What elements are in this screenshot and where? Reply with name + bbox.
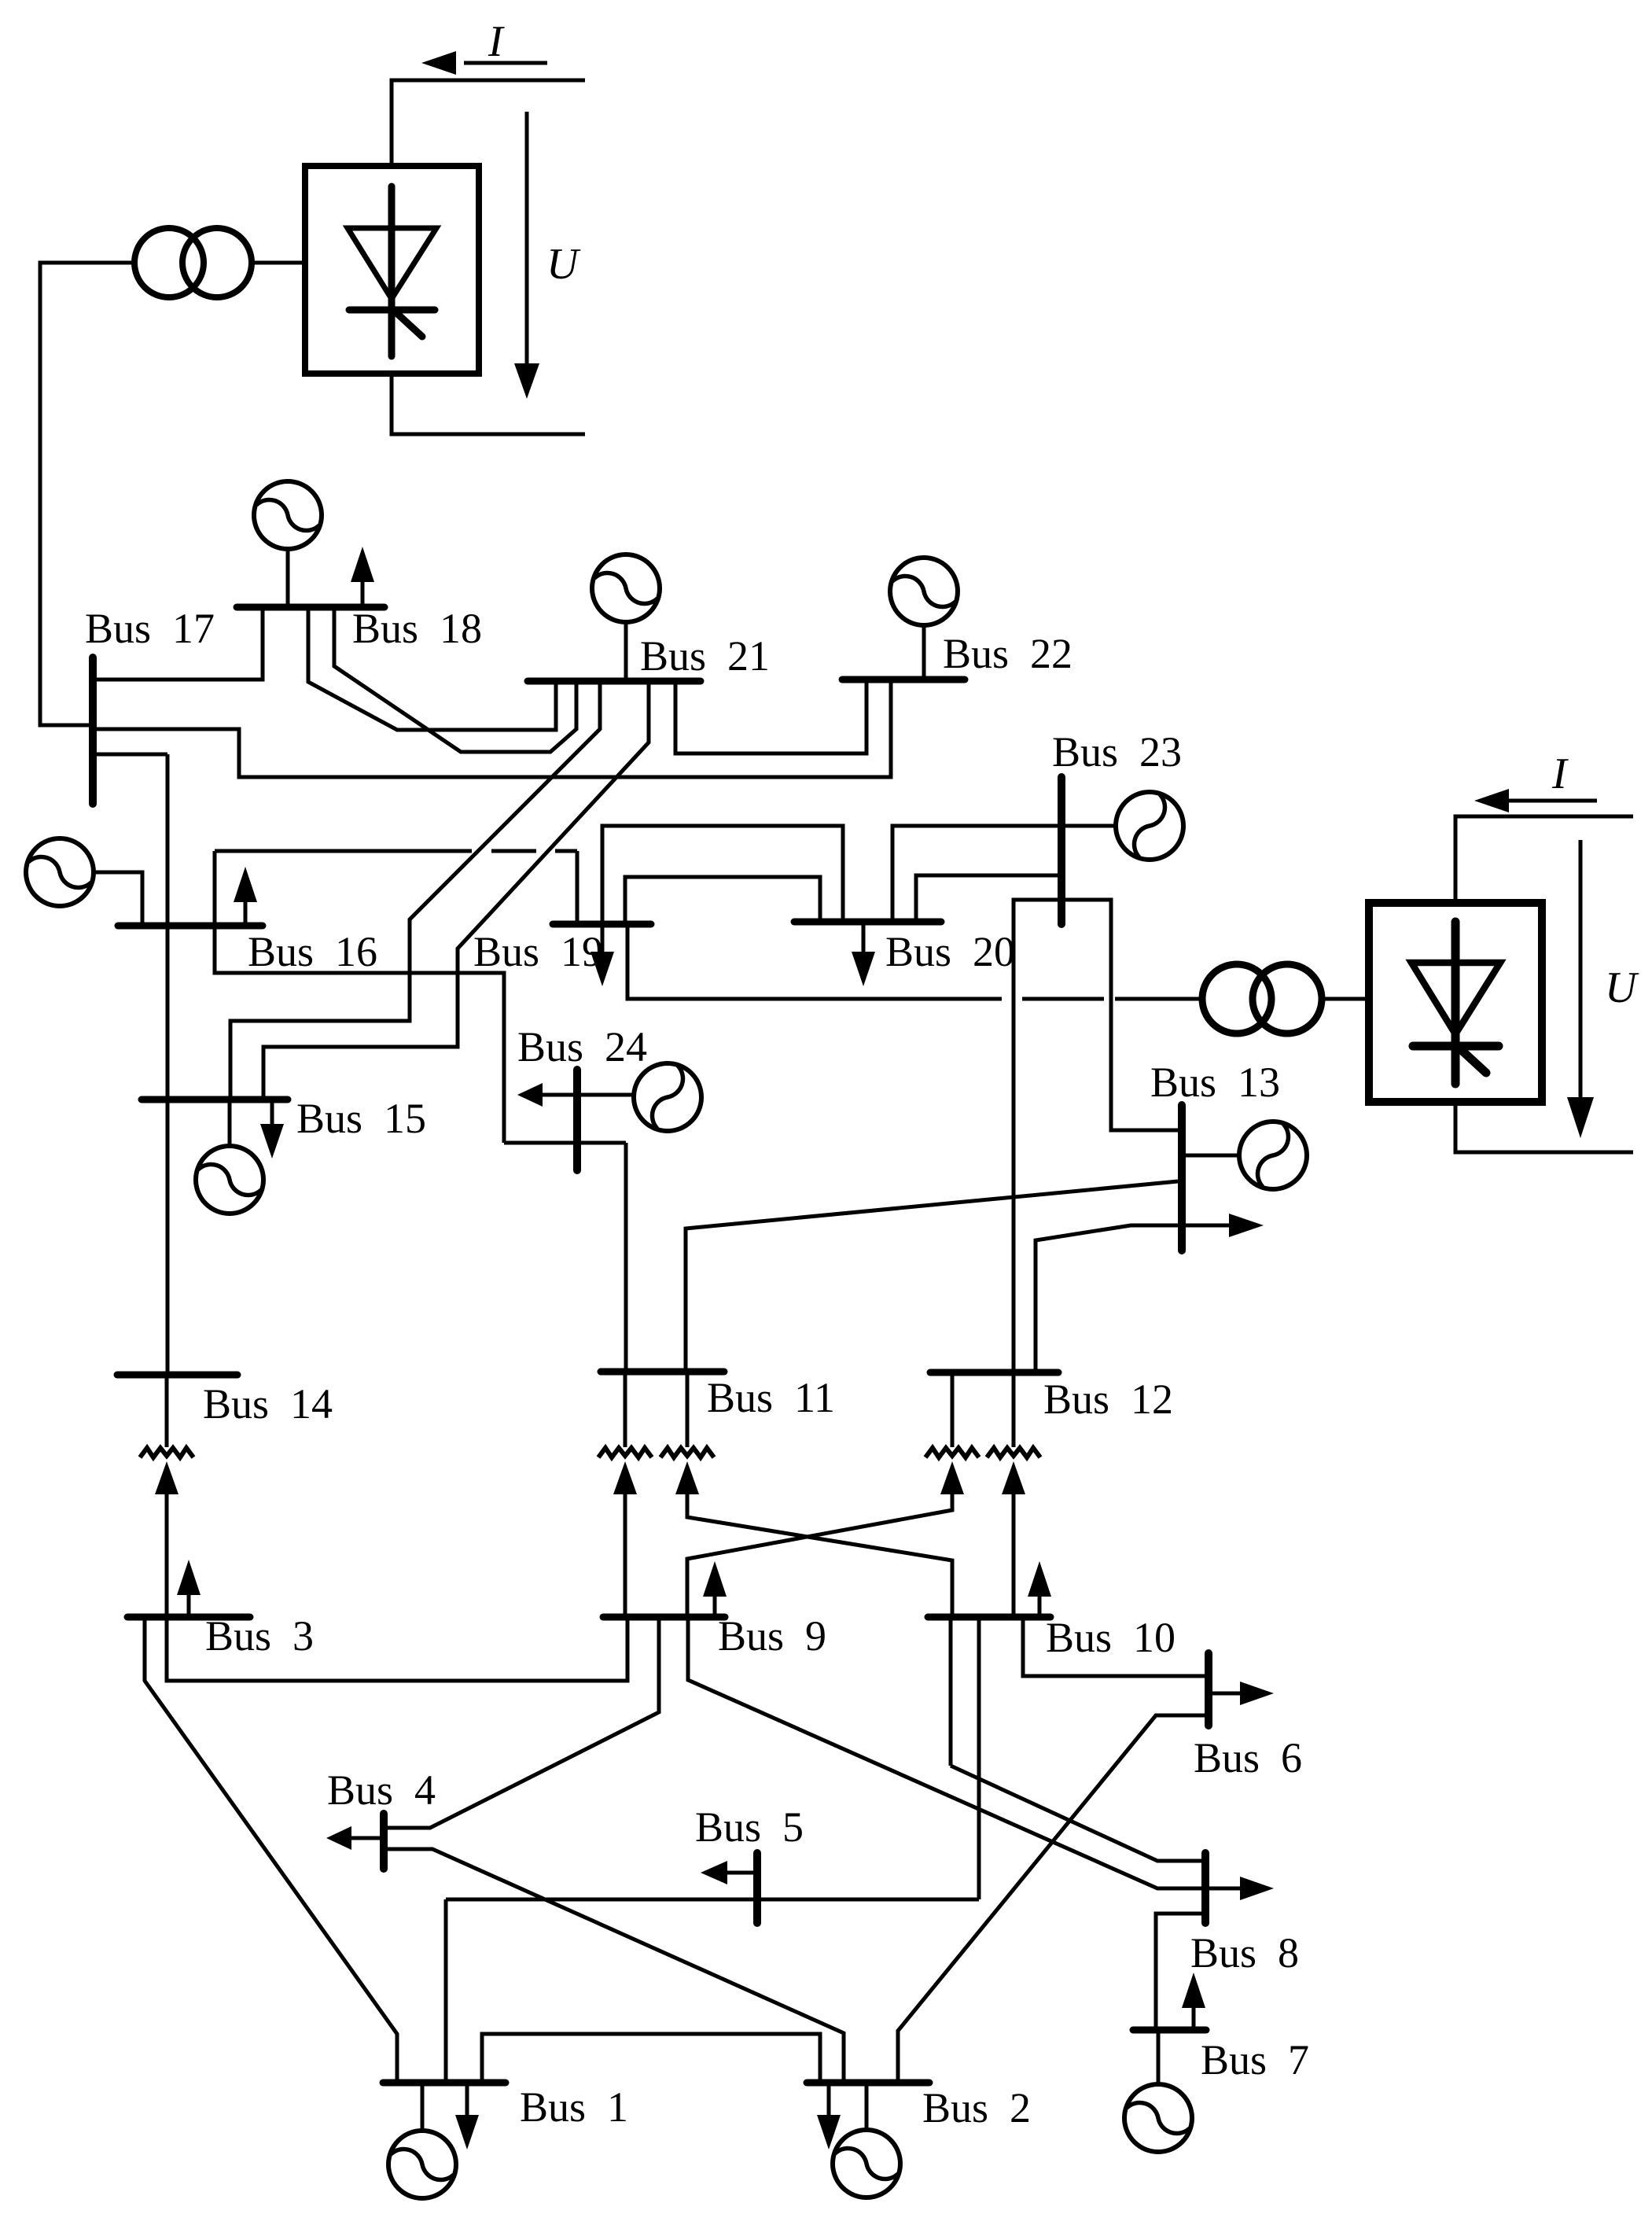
wire generator lead Bus23 [1061,824,1116,828]
wire Bus19-Bus20 circuit 1 [602,826,843,921]
zigzag mark Bus12 left line [925,1448,979,1457]
wire Bus18-Bus21 circuit A [308,610,556,730]
svg-text:Bus 10: Bus 10 [1046,1614,1176,1661]
zigzag mark Bus14 line [140,1448,193,1457]
wire Bus1-Bus5-Bus10 horizontal [446,1899,979,2083]
bus bar Bus 14 [117,1372,237,1379]
bus bar Bus 8 [1201,1853,1209,1923]
bus bar Bus 7 [1133,2027,1206,2034]
svg-text:Bus 12: Bus 12 [1043,1376,1173,1423]
generator G-Bus18 [254,481,322,607]
arrowhead up line into Bus14 [155,1461,178,1494]
generator G-Bus21 [592,554,660,681]
wire Bus10-Bus5 vertical [977,1617,981,1899]
arrowhead up line into Bus12 right [1002,1461,1025,1494]
bus bar Bus 21 [528,678,701,685]
bus bar Bus 10 [928,1614,1050,1621]
wire Bus16-Bus19 (gaps at diagonal crossings) [215,851,577,923]
svg-text:Bus 18: Bus 18 [352,605,482,652]
svg-text:Bus 3: Bus 3 [205,1612,314,1660]
svg-text:Bus 14: Bus 14 [203,1380,333,1427]
wire converter1 DC bottom [392,374,585,434]
wire Bus4-Bus9 [387,1617,659,1828]
svg-text:Bus 11: Bus 11 [707,1374,835,1421]
thyristor V2 triangle [1411,963,1500,1034]
svg-text:Bus 7: Bus 7 [1201,2036,1309,2083]
bus bar Bus 16 [118,923,263,930]
load arrow Bus16 (up) [234,867,257,926]
wire Bus14-Bus3 lower stem [165,1494,169,1617]
wire Bus24 bar crossing horizontal [504,1141,626,1145]
load arrow Bus3 (up) [177,1560,201,1617]
wire T1 to converter box [252,261,305,265]
svg-text:Bus 21: Bus 21 [640,632,770,680]
zigzag mark Bus11 left line [598,1448,652,1457]
arrow U2 line [1579,840,1583,1101]
bus bar Bus 24 [573,1070,581,1170]
wire converter2 DC top [1455,816,1633,903]
generator G-Bus15 [196,1100,263,1214]
load arrow Bus5 (left) [701,1861,754,1884]
generator G-Bus1 [388,2083,456,2198]
load arrow Bus7 (up) [1182,1973,1205,2030]
wire Bus7-Bus8 [1156,1914,1203,2030]
svg-text:Bus 23: Bus 23 [1052,728,1182,775]
arrowhead up line into Bus11 left [613,1461,637,1494]
wire converter1 AC lead + drop to Bus 17 [40,263,135,725]
transformer T2 circle a [1202,964,1271,1033]
bus bar Bus 19 [553,921,651,928]
svg-text:Bus 17: Bus 17 [85,605,215,652]
wire Bus12-Bus9 upper stem [951,1372,955,1447]
wire Bus21-Bus22 [675,683,866,753]
wire Bus11-Bus9 lower stem [624,1494,627,1617]
zigzag mark Bus11 right line [660,1448,714,1457]
load arrow Bus2 (down) [817,2083,841,2150]
wire Bus12-Bus10 lower stem [1012,1494,1016,1617]
wire Bus11-Bus10 diagonal to Bus10 [687,1494,952,1617]
svg-text:Bus 24: Bus 24 [517,1023,647,1070]
svg-text:U: U [546,240,581,289]
wire Bus14-Bus3 upper stem [165,1375,169,1447]
bus bar Bus 23 [1058,777,1065,924]
svg-text:Bus 2: Bus 2 [922,2084,1031,2131]
arrowhead up line into Bus12 left [940,1461,964,1494]
wire Bus10 to jog point [949,1617,953,1766]
generator G-Bus22 [890,558,958,680]
thyristor V1 gate [393,310,422,337]
wire generator lead Bus16 [94,872,142,923]
load arrow Bus19 (down) [591,924,614,986]
svg-text:Bus 8: Bus 8 [1190,1929,1299,1976]
wire Bus17-Bus22 [90,683,891,777]
arrow I1 line [464,61,547,65]
svg-text:Bus 22: Bus 22 [943,630,1073,677]
wire converter2 DC bottom [1455,1102,1633,1152]
wire Bus2-Bus6 [898,1715,1205,2083]
wire Bus19-Bus20 circuit 2 [625,877,820,921]
bus bar Bus 18 [237,604,384,611]
generator G-Bus16 [26,838,94,906]
wire Bus12-Bus10 upper stem [1012,1372,1016,1447]
wire Bus20-Bus23 circuit 1 [892,826,1061,919]
load arrow Bus15 (down) [260,1100,284,1159]
wire Bus24-Bus11 [624,1143,628,1372]
svg-text:Bus 4: Bus 4 [327,1766,436,1814]
wire Bus12-Bus9 diagonal to Bus9 [687,1494,952,1617]
arrowhead up line into Bus11 right [675,1461,699,1494]
svg-text:Bus 15: Bus 15 [296,1095,426,1142]
load arrow Bus20 (down) [852,922,875,986]
wire Bus17-Bus18 [90,610,263,680]
load arrow Bus6 (right) [1212,1682,1274,1705]
generator G-Bus23 [1061,792,1183,860]
wire Bus11-Bus9 upper stem [624,1372,627,1447]
bus bar Bus 3 [127,1614,250,1621]
thyristor V1 cathode bar [349,307,435,314]
wire Bus15-Bus21 circuit 1 [230,684,600,1096]
load arrow Bus24 (left) [517,1083,575,1107]
bus bar Bus 13 [1178,1105,1186,1251]
wire Bus3-Bus1 [145,1617,397,2083]
svg-text:Bus 16: Bus 16 [248,928,377,975]
wire Bus8-Bus10 diagonal [951,1766,1205,1861]
zigzag mark Bus12 right line [987,1448,1040,1457]
arrow U1 head [514,363,539,399]
wire Bus19 to T2 (with crossing gaps) [627,923,1202,999]
wire Bus6-Bus10 [1023,1617,1209,1676]
wire Bus15-Bus21 circuit 2 [263,684,649,1096]
wire Bus1-Bus2 [482,2034,820,2083]
wire Bus8-Bus9 [688,1617,1205,1888]
svg-text:U: U [1605,963,1639,1012]
wire Bus11-Bus10 upper stem [686,1372,690,1447]
svg-text:Bus 5: Bus 5 [695,1803,804,1851]
svg-text:Bus 9: Bus 9 [718,1612,826,1660]
arrow I1 head [421,51,456,75]
transformer T2 circle b [1253,964,1322,1033]
converter U2 box [1369,903,1542,1102]
load arrow Bus13 (right) [1229,1214,1264,1237]
bus bar Bus 17 [89,658,97,804]
arrow I2 head [1474,789,1509,812]
load arrow Bus10 (up) [1028,1561,1051,1617]
load arrow Bus9 (up) [703,1561,727,1617]
generator G-Bus13 [1182,1122,1307,1189]
svg-text:I: I [1551,750,1569,798]
bus bar Bus 9 [603,1614,725,1621]
bus bar Bus 11 [601,1369,724,1376]
load arrow Bus8 (right) [1209,1877,1274,1900]
arrow I2 line [1505,799,1597,803]
wire Bus3-Bus9 [167,1617,627,1681]
svg-text:Bus 6: Bus 6 [1194,1734,1302,1781]
bus bar Bus 4 [380,1814,388,1869]
wire Bus12-Bus13 with load arrow tail [1036,1225,1229,1372]
load arrow Bus1 (down) [455,2083,479,2150]
thyristor V1 triangle [348,228,436,299]
bus bar Bus 2 [807,2080,929,2087]
load arrow Bus4 (left) [326,1826,381,1850]
bus bar Bus 5 [753,1853,761,1923]
generator G-Bus2 [833,2083,900,2197]
svg-text:Bus 20: Bus 20 [885,928,1015,975]
wire converter1 DC top [392,80,585,166]
bus bar Bus 12 [930,1369,1058,1376]
bus bar Bus 6 [1205,1653,1212,1726]
thyristor V2 vertical lead [1451,922,1460,1084]
converter U1 box [305,166,479,374]
bus bar Bus 20 [794,919,941,926]
arrow U1 line [525,112,529,366]
generator G-Bus24 [577,1063,701,1131]
svg-text:Bus 1: Bus 1 [520,2083,628,2131]
bus bar Bus 15 [142,1096,288,1103]
transformer T1 circle a [134,228,204,297]
thyristor V2 cathode bar [1413,1042,1499,1051]
thyristor V2 gate [1457,1046,1486,1073]
bus bar Bus 1 [383,2080,506,2087]
transformer T1 circle b [182,228,252,297]
wire Bus11-Bus13 diagonal [686,1181,1178,1372]
wire Bus2-Bus4 [387,1849,844,2083]
svg-text:I: I [488,17,505,66]
wire Bus16-Bus24 [215,929,504,1143]
svg-text:Bus 19: Bus 19 [473,928,603,975]
svg-text:Bus 13: Bus 13 [1150,1059,1280,1106]
wire Bus18-Bus21 circuit B [334,610,576,752]
bus bar Bus 22 [842,676,965,683]
arrow U2 head [1567,1097,1594,1138]
wire Bus17-Bus16-Bus15-Bus14 vertical trunk [90,754,167,1375]
thyristor V1 vertical lead [388,186,396,356]
wire T2 to converter box [1322,997,1369,1001]
load arrow Bus18 (up) [351,547,374,607]
generator G-Bus7 [1124,2030,1192,2152]
wire Bus23-Bus12 and Bus23-Bus13 [1014,900,1179,1372]
wire Bus20-Bus23 circuit 2 [916,875,1061,919]
